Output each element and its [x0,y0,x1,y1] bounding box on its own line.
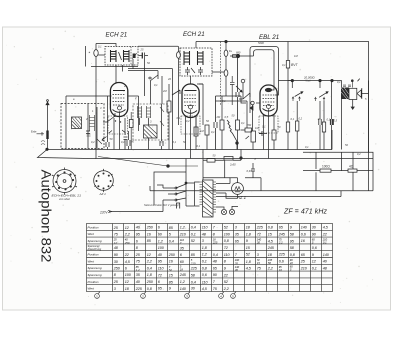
svg-text:0,2: 0,2 [299,117,303,121]
AVC feed line with filter caps [224,40,232,96]
svg-text:140: 140 [301,226,308,230]
svg-text:20: 20 [167,77,171,81]
svg-text:Wert: Wert [88,259,95,263]
wire: double horizontal to switch [128,69,173,96]
svg-text:220V: 220V [99,211,108,215]
output transformer T4 [341,79,360,110]
wire: under T1 horizontal [86,46,139,67]
wire: B+ vertical x=288 [287,42,289,151]
svg-text:250: 250 [168,253,176,257]
resistor R3 [167,101,171,112]
svg-text:ECH 21: ECH 21 [183,31,205,38]
antenna input [31,100,49,149]
svg-text:9: 9 [246,239,248,243]
svg-text:52: 52 [224,226,228,230]
svg-text:2,2: 2,2 [124,233,130,237]
svg-text:250: 250 [146,280,154,284]
tube V1 base outline [108,116,128,134]
pilot lamps [216,206,238,214]
table row labels [87,225,102,290]
svg-text:35: 35 [235,261,238,265]
svg-text:72: 72 [158,273,162,277]
svg-text:22: 22 [289,261,293,265]
svg-text:0,1: 0,1 [202,260,207,264]
svg-text:0,4: 0,4 [169,240,174,244]
svg-text:110: 110 [224,253,231,257]
wire: x=172.5 drop [172,96,174,150]
svg-text:0,2: 0,2 [186,119,190,123]
svg-text:245: 245 [267,246,275,250]
svg-text:225: 225 [212,241,218,245]
svg-text:0,4: 0,4 [147,267,152,271]
oscillator coil L2 assembly [133,104,168,140]
svg-text:*: * [89,51,91,56]
wire: HT bottom rail [150,186,373,197]
svg-text:von oben: von oben [59,197,71,201]
wire: left stub to junction [230,55,254,57]
svg-text:100: 100 [158,246,165,250]
volume pot [246,131,256,150]
capacitor C5 [124,137,128,150]
svg-text:0,4: 0,4 [191,226,196,230]
svg-text:210: 210 [179,233,187,237]
svg-text:0,2: 0,2 [357,152,361,156]
svg-text:100: 100 [224,233,231,237]
svg-text:Autophon 832: Autophon 832 [39,170,54,263]
svg-text:AZ 1: AZ 1 [236,195,247,200]
triode-hexode V1 (ECH 21) [110,83,127,133]
wire: feedback mid lines [303,152,373,191]
scan speckle [6,31,379,306]
svg-text:2,2: 2,2 [146,260,152,264]
capacitor C1 lead [132,59,134,69]
svg-text:EBL 21: EBL 21 [259,34,279,41]
svg-text:0,1: 0,1 [327,118,331,122]
wire: left vertical feed x=96 [95,44,97,122]
svg-text:0,1: 0,1 [211,130,215,134]
svg-text:12: 12 [125,280,129,284]
svg-text:110: 110 [202,226,209,230]
wire: top bus y=40.5 [196,42,369,67]
svg-text:1,2: 1,2 [136,268,140,272]
svg-text:0,1: 0,1 [191,232,196,236]
svg-text:0,1: 0,1 [98,45,102,49]
svg-text:Position: Position [88,280,99,284]
switch S1b [172,90,180,95]
wire: long bus y=158.5 [96,158,373,160]
wire: V3 drops [259,126,274,159]
svg-text:0,1: 0,1 [222,99,226,103]
svg-text:210: 210 [300,266,308,270]
svg-text:0,5: 0,5 [334,119,338,123]
svg-text:Watt: Watt [306,79,311,82]
mains lead and plug [99,185,180,215]
svg-text:0,5: 0,5 [160,140,164,144]
svg-text:0,1: 0,1 [197,144,201,148]
AVC line capacitor left of T1 [89,50,99,57]
wire: right vertical x=368.5 [368,66,370,191]
svg-text:BVT: BVT [291,63,299,67]
resistor 880 on detector line [233,51,241,58]
wire: T1 to tube V1 grid [116,65,123,83]
output pentode V3 (EBL 21) [260,85,277,131]
component value labels [73,41,367,173]
svg-text:12: 12 [125,226,129,230]
svg-text:0,5: 0,5 [225,115,229,119]
capacitor C9 [259,131,267,136]
svg-text:0,4: 0,4 [191,280,196,284]
svg-text:ECH 21: ECH 21 [106,32,128,39]
svg-text:110: 110 [158,266,165,270]
svg-text:9: 9 [290,226,292,230]
svg-text:9: 9 [224,266,226,270]
resistor R1 [129,120,133,128]
wire: speaker to right rail [357,93,369,95]
wire: EBL grid coupling [241,96,260,103]
wire: bus drop links [96,119,334,159]
IF transformer T1 box [105,47,138,66]
screen resistor BVT on B+ line [286,61,298,69]
measurement table grid [87,224,333,299]
svg-text:250: 250 [124,241,130,245]
wire: T2 to tube V2 [190,76,192,84]
svg-text:9: 9 [312,253,314,257]
table reference balloons [95,292,236,299]
wire: top horizontal over T1 [96,44,116,47]
coupling capacitor C1 [139,53,149,97]
mains selector switch [154,159,203,207]
resistor 100 ohm [320,165,331,173]
svg-text:30: 30 [235,268,238,272]
dial cord diagonal [98,157,198,167]
shield partition dashed [219,42,221,106]
svg-text:0,1: 0,1 [177,116,181,120]
svg-text:250: 250 [146,226,154,230]
tube socket diagram AZ1 [94,169,114,196]
wire: feedback loop rectangle [303,81,373,191]
svg-text:100Ω: 100Ω [322,165,330,169]
svg-text:16: 16 [279,268,282,272]
switch S1c [140,75,163,125]
wire: left section verticals [108,104,162,150]
svg-text:140: 140 [180,287,187,291]
svg-text:225: 225 [278,253,286,257]
svg-text:0,1: 0,1 [282,63,286,67]
svg-text:ZF = 471 kHz: ZF = 471 kHz [283,209,328,216]
tube socket diagram ECH/EBL 21 [52,168,82,202]
wire: transformer to rectifier [216,178,238,199]
svg-text:72: 72 [224,246,228,250]
triode-hexode V2 (ECH 21) [182,84,199,131]
loudspeaker [357,88,362,99]
svg-text:1,2: 1,2 [180,280,185,284]
svg-text:22: 22 [322,232,327,236]
resistor R7 [194,127,198,136]
svg-text:58: 58 [268,261,271,265]
tone capacitors [319,119,333,125]
svg-text:12: 12 [114,241,117,245]
svg-text:9: 9 [169,287,171,291]
svg-text:22: 22 [223,273,228,277]
wire: chassis diagonal [38,150,97,159]
svg-text:210: 210 [190,261,196,265]
wire: mixer grid link [66,96,139,131]
svg-text:225: 225 [190,267,198,271]
wire: x=169 drop [168,84,170,150]
svg-text:Wert: Wert [88,287,95,291]
svg-text:0,1: 0,1 [312,267,317,271]
svg-text:Spannung: Spannung [88,273,102,277]
svg-text:0,1: 0,1 [305,145,309,149]
svg-text:25: 25 [140,48,144,52]
svg-text:0,1: 0,1 [262,125,266,129]
wire: long bus y=149.5 [47,149,332,151]
svg-text:52: 52 [191,239,195,243]
output switch group [291,79,333,101]
svg-text:1,2: 1,2 [202,253,207,257]
svg-text:0,1: 0,1 [154,83,158,87]
svg-text:18: 18 [180,268,183,272]
svg-text:1,2: 1,2 [158,239,163,243]
svg-text:22: 22 [124,253,129,257]
svg-text:12: 12 [312,260,316,264]
svg-text:ECH+ECH+EBL 21: ECH+ECH+EBL 21 [52,194,82,198]
wire: T2 top to bus [195,42,197,49]
svg-text:Position: Position [88,225,99,229]
svg-text:Erde: Erde [31,130,37,134]
svg-text:100: 100 [125,273,132,277]
tube V3 base outline [259,116,278,133]
svg-text:1,2: 1,2 [180,226,185,230]
svg-text:0,1: 0,1 [241,121,245,125]
svg-text:2,2: 2,2 [223,287,229,291]
svg-text:0,1: 0,1 [291,117,295,121]
svg-text:880: 880 [236,51,241,55]
power transformer T3 [186,180,216,217]
wire: output top bus y=80 [279,81,342,88]
svg-text:Spannung: Spannung [88,239,102,243]
AVC network components [197,84,224,150]
svg-text:110: 110 [202,280,209,284]
svg-text:225: 225 [256,226,264,230]
smoothing capacitors [203,150,261,191]
svg-text:2: 2 [124,84,126,88]
svg-text:0,4: 0,4 [213,253,218,257]
svg-text:140: 140 [323,253,330,257]
svg-text:2x50: 2x50 [229,163,236,167]
tube V2 base outline [181,116,200,134]
svg-text:Netzumschalter 110 V gezeigt: Netzumschalter 110 V gezeigt [144,203,179,207]
svg-text:250: 250 [113,267,121,271]
rectifier AZ 1 [232,178,247,200]
svg-text:52: 52 [246,253,250,257]
svg-text:0,1: 0,1 [173,140,177,144]
svg-text:30: 30 [257,241,260,245]
svg-text:245: 245 [179,273,187,277]
table cell entries [113,226,330,292]
resistor on feedback line [348,165,357,173]
junction node [236,54,239,57]
wire: V1 cathode drops [114,128,125,150]
detector cap and switch [230,76,242,105]
svg-text:Abweichung: Abweichung [87,248,102,251]
svg-text:52: 52 [224,280,228,284]
svg-text:15: 15 [257,261,260,265]
svg-text:0,1: 0,1 [121,140,125,144]
svg-text:52: 52 [169,268,172,272]
svg-text:0,2: 0,2 [91,140,95,144]
svg-text:72: 72 [257,233,261,237]
svg-text:0,1: 0,1 [337,80,341,84]
wire: V2 base drops [186,127,197,159]
svg-text:AZ 1: AZ 1 [99,192,107,196]
svg-text:12: 12 [147,253,151,257]
svg-text:2,2: 2,2 [267,266,273,270]
svg-text:225: 225 [135,287,143,291]
band switch S1 contacts [103,113,115,122]
svg-text:Wert: Wert [88,232,95,236]
svg-text:2,2: 2,2 [278,241,283,245]
svg-text:Spannung: Spannung [88,266,102,270]
input coil L1 assembly [61,104,104,149]
detector components [216,56,255,150]
wire: tone network verticals [297,81,341,150]
IF transformer T2 box [180,48,212,76]
resistor R12 [272,130,276,140]
svg-text:0,1: 0,1 [323,241,327,245]
plate loop wires around V3 [250,47,279,114]
svg-text:245: 245 [278,233,286,237]
padder capacitors row [106,140,163,147]
wire: IF link [199,72,241,96]
svg-text:5000: 5000 [258,41,264,45]
wire: screen feed [288,80,292,82]
capacitor at T2 left [177,52,181,58]
svg-text:Position: Position [88,253,99,257]
